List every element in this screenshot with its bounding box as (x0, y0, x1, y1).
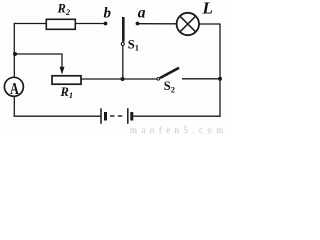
wire S2 to right vertical (182, 78, 220, 80)
wire middle horizontal from R1 to S2 (82, 78, 158, 80)
node b (104, 22, 108, 26)
battery cell 2 long plate (127, 108, 129, 124)
svg-text:a: a (138, 5, 146, 22)
switch S1 pivot terminal (121, 43, 124, 46)
wire R2 to node b (76, 23, 105, 25)
lamp X diagonal 2 (180, 16, 196, 32)
wire bottom left (14, 115, 101, 117)
wire bottom right (134, 115, 221, 117)
lamp X diagonal 1 (180, 16, 196, 32)
wire right vertical (219, 24, 221, 117)
svg-text:A: A (10, 80, 19, 98)
junction node on left vertical (13, 52, 17, 56)
node a (136, 22, 140, 26)
rheostat arrow stem (61, 54, 63, 69)
ammeter A letter (10, 80, 19, 98)
junction node S1 bottom on middle wire (121, 77, 125, 81)
svg-text:S1: S1 (128, 37, 139, 52)
wire lamp to top-right corner (199, 23, 220, 25)
switch S2 pivot terminal (157, 78, 160, 81)
wire branch to rheostat arrow (14, 53, 62, 55)
svg-text:R1: R1 (60, 85, 74, 100)
battery cell 1 short thick plate (104, 112, 107, 121)
resistor R2 (46, 19, 75, 29)
battery dashed link dash 2 (118, 115, 123, 117)
battery cell 1 long plate (100, 108, 102, 124)
svg-text:R2: R2 (57, 2, 71, 17)
rheostat R1 box (52, 76, 81, 84)
wire top-left horizontal (14, 23, 47, 25)
wire S1 pivot down to middle wire (122, 46, 124, 79)
lamp L circle (177, 13, 199, 35)
wire left vertical upper (13, 23, 15, 78)
switch S2 lever (160, 68, 179, 78)
svg-text:S2: S2 (164, 79, 175, 94)
battery dashed link dash 1 (110, 115, 115, 117)
battery cell 2 short thick plate (130, 112, 133, 121)
svg-text:L: L (202, 0, 213, 18)
ammeter A circle (4, 77, 23, 96)
svg-text:manfen5.com: manfen5.com (130, 125, 225, 135)
wire node a to lamp (138, 23, 177, 25)
rheostat arrowhead (60, 67, 65, 75)
switch S1 lever bar (122, 17, 125, 42)
svg-text:b: b (104, 5, 112, 21)
wire left vertical lower (13, 96, 15, 116)
junction node on right vertical (218, 77, 222, 81)
